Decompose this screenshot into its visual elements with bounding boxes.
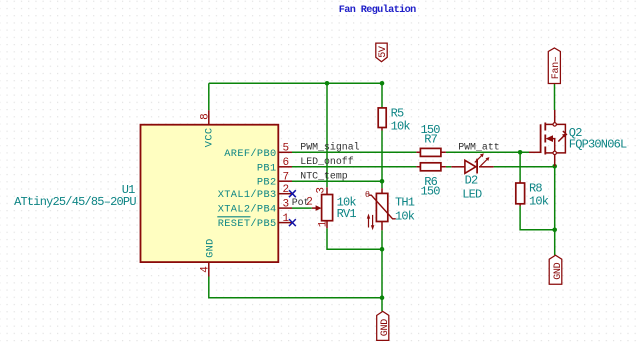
svg-text:10k: 10k (395, 210, 415, 224)
svg-text:8: 8 (199, 113, 211, 120)
svg-text:LED: LED (462, 188, 482, 202)
svg-text:AREF/PB0: AREF/PB0 (224, 148, 276, 160)
svg-text:PWM_signal: PWM_signal (300, 142, 359, 153)
svg-text:FQP30N06L: FQP30N06L (569, 137, 627, 151)
svg-text:RESET/PB5: RESET/PB5 (218, 218, 277, 230)
svg-text:10k: 10k (391, 120, 411, 134)
svg-text:D2: D2 (465, 174, 478, 188)
svg-text:R5: R5 (391, 107, 404, 121)
svg-text:6: 6 (283, 157, 290, 169)
svg-text:PB1: PB1 (257, 162, 277, 174)
svg-text:GND: GND (553, 262, 564, 279)
svg-text:7: 7 (283, 172, 290, 184)
svg-text:150: 150 (421, 184, 441, 198)
svg-text:3: 3 (283, 199, 290, 211)
svg-text:XTAL2/PB4: XTAL2/PB4 (218, 204, 277, 216)
svg-text:10k: 10k (529, 195, 549, 209)
svg-text:ATtiny25/45/85–20PU: ATtiny25/45/85–20PU (14, 195, 136, 209)
svg-text:5V: 5V (378, 46, 389, 58)
svg-text:1: 1 (318, 220, 330, 227)
svg-text:3: 3 (315, 187, 327, 194)
svg-text:NTC_temp: NTC_temp (300, 171, 347, 182)
svg-text:GND: GND (205, 238, 217, 258)
svg-text:XTAL1/PB3: XTAL1/PB3 (218, 189, 277, 201)
svg-text:4: 4 (200, 266, 212, 273)
svg-text:5: 5 (283, 143, 290, 155)
svg-text:R7: R7 (424, 132, 437, 146)
svg-text:RV1: RV1 (337, 207, 357, 221)
svg-text:Fan Regulation: Fan Regulation (339, 4, 416, 16)
svg-text:1: 1 (283, 213, 290, 225)
svg-text:VCC: VCC (204, 128, 216, 148)
svg-text:TH1: TH1 (395, 196, 415, 210)
svg-text:2: 2 (283, 184, 290, 196)
svg-text:2: 2 (306, 197, 313, 209)
svg-text:LED_onoff: LED_onoff (300, 156, 353, 167)
svg-text:R8: R8 (529, 182, 542, 196)
svg-text:PB2: PB2 (257, 177, 277, 189)
svg-text:PWM_att: PWM_att (458, 142, 499, 153)
svg-text:GND: GND (380, 319, 391, 336)
svg-text:θ: θ (365, 190, 370, 200)
svg-text:Fan–: Fan– (551, 56, 562, 79)
